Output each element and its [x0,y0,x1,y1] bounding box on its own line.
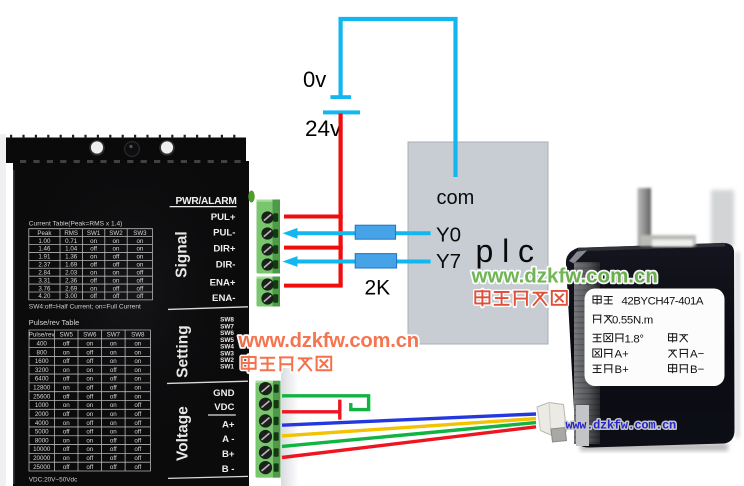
svg-text:off: off [63,411,70,418]
svg-text:on: on [134,393,141,400]
svg-text:off: off [86,385,93,392]
svg-text:2.36: 2.36 [65,277,78,284]
svg-text:on: on [134,385,141,392]
svg-text:SW5: SW5 [59,332,73,339]
svg-text:SW3: SW3 [133,230,147,237]
svg-text:off: off [134,420,141,427]
svg-text:800: 800 [37,349,48,356]
svg-text:0.55N.m: 0.55N.m [612,314,653,326]
svg-text:4000: 4000 [35,420,49,427]
svg-text:on: on [63,367,70,374]
svg-text:A−: A− [690,349,705,361]
svg-text:on: on [63,385,70,392]
svg-text:on: on [134,358,141,365]
svg-text:com: com [437,187,475,209]
svg-text:DIR-: DIR- [216,259,236,270]
svg-text:B+: B+ [222,449,235,460]
svg-text:on: on [86,402,93,409]
svg-text:B−: B− [690,364,705,376]
svg-text:0v: 0v [303,67,326,92]
pulse/rev table [29,330,151,471]
svg-text:on: on [136,246,143,253]
svg-text:3.31: 3.31 [38,277,51,284]
svg-text:1.91: 1.91 [38,254,51,261]
motor bracket highlight [576,405,589,446]
svg-text:on: on [90,269,97,276]
svg-text:off: off [86,393,93,400]
wire 0v to PLC com (cyan) [341,19,456,177]
svg-text:GND: GND [213,388,234,399]
svg-text:1.00: 1.00 [38,238,51,245]
driver heatsink top strip [6,137,246,164]
svg-text:off: off [63,358,70,365]
svg-text:on: on [86,437,93,444]
svg-text:on: on [86,367,93,374]
svg-text:2.69: 2.69 [65,285,78,292]
svg-text:off: off [113,254,120,261]
svg-text:A+: A+ [222,420,235,431]
PLC U1 [408,142,548,344]
svg-text:off: off [63,464,70,471]
svg-text:on: on [110,358,117,365]
svg-text:SW2: SW2 [109,230,123,237]
svg-text:off: off [134,437,141,444]
svg-text:on: on [110,349,117,356]
arrowhead DIR- [283,256,298,267]
svg-text:off: off [90,246,97,253]
svg-text:6400: 6400 [35,376,49,383]
svg-text:off: off [86,464,93,471]
svg-text:off: off [90,262,97,269]
svg-text:ENA+: ENA+ [210,278,236,289]
svg-text:on: on [134,367,141,374]
enable terminal block (ENA) [257,277,281,307]
svg-text:Voltage: Voltage [175,406,192,461]
mounting screw (left) [89,140,105,156]
svg-text:www.dzkfw.com.cn: www.dzkfw.com.cn [238,330,419,352]
battery B1: positive plate [323,110,360,114]
wire to PUL+ [284,215,343,219]
svg-text:off: off [86,358,93,365]
svg-text:off: off [90,293,97,300]
wire B+ (green) [282,423,536,447]
stepper motor M1: shaft post [638,188,652,248]
VDC underline [208,414,236,416]
svg-text:on: on [134,340,141,347]
svg-text:2000: 2000 [35,411,49,418]
svg-text:off: off [86,429,93,436]
svg-text:25000: 25000 [33,464,51,471]
current table [29,229,153,300]
svg-text:Pulse/rev Table: Pulse/rev Table [29,318,79,327]
svg-text:off: off [63,446,70,453]
svg-text:A -: A - [222,434,234,445]
GND wire (green) connector hook [282,396,369,410]
svg-text:2.37: 2.37 [38,262,51,269]
svg-text:Peak: Peak [37,230,52,237]
svg-text:on: on [63,349,70,356]
resistor R2 2K [355,254,396,268]
svg-text:Pulse/rev: Pulse/rev [29,332,56,339]
wire to ENA+ [284,284,343,288]
svg-text:off: off [63,393,70,400]
svg-text:4.20: 4.20 [38,293,51,300]
svg-text:2.03: 2.03 [65,269,78,276]
svg-text:25600: 25600 [33,393,51,400]
svg-text:on: on [63,402,70,409]
arrowhead PUL- [283,228,298,239]
wire DIR- to Y7 (cyan) [295,260,431,264]
svg-text:Setting: Setting [174,325,191,378]
photo background edge shading (left of driver) [0,134,6,486]
svg-text:A+: A+ [615,349,630,361]
svg-text:off: off [110,455,117,462]
svg-text:on: on [136,262,143,269]
watermark orange 电子开发网 [242,356,332,372]
motor top edge highlight [578,243,725,251]
voltage terminal block [256,381,281,478]
svg-text:off: off [63,340,70,347]
svg-text:VDC:20V~50Vdc: VDC:20V~50Vdc [29,477,78,484]
wire PUL- to Y0 (cyan) [295,231,431,235]
label line: 转矩0.55N.m [593,315,613,323]
svg-text:Current Table(Peak=RMS x 1.4): Current Table(Peak=RMS x 1.4) [29,221,123,228]
motor wire connector (white plastic) [537,403,567,437]
svg-text:1.04: 1.04 [65,246,78,253]
svg-text:on: on [136,238,143,245]
svg-text:on: on [110,420,117,427]
photo background edge shading (right of driver bottom) [281,368,299,486]
svg-text:off: off [113,285,120,292]
svg-text:off: off [110,464,117,471]
svg-text:off: off [134,446,141,453]
svg-text:1000: 1000 [35,402,49,409]
svg-text:on: on [90,238,97,245]
svg-text:400: 400 [37,340,48,347]
svg-text:on: on [86,376,93,383]
svg-text:plc: plc [476,233,543,269]
svg-text:PWR/ALARM: PWR/ALARM [175,196,236,207]
svg-text:off: off [86,420,93,427]
section divider 2 [167,381,248,383]
svg-text:on: on [110,429,117,436]
svg-text:on: on [86,340,93,347]
svg-text:PUL-: PUL- [213,227,235,238]
svg-text:on: on [63,455,70,462]
svg-text:on: on [90,285,97,292]
svg-text:off: off [86,455,93,462]
stepper motor M1: body [566,243,735,448]
svg-text:Signal: Signal [174,231,191,278]
svg-text:2.84: 2.84 [38,269,51,276]
svg-text:SW4:off=Half Current; on=Full: SW4:off=Half Current; on=Full Current [29,304,141,311]
svg-text:3.76: 3.76 [38,285,51,292]
signal terminal block (PUL/DIR) [257,200,281,274]
svg-text:off: off [90,277,97,284]
svg-text:RMS: RMS [64,230,78,237]
svg-text:3.00: 3.00 [65,293,78,300]
svg-text:1.8°: 1.8° [625,333,644,345]
svg-text:DIR+: DIR+ [213,244,236,255]
svg-text:3200: 3200 [35,367,49,374]
stepper motor M1: rear post [711,190,734,247]
svg-text:SW8: SW8 [131,332,145,339]
svg-text:Y7: Y7 [436,250,461,273]
svg-text:10000: 10000 [33,446,51,453]
battery B1: negative plate [330,95,351,99]
svg-text:off: off [137,285,144,292]
driver lens/led window [125,142,140,157]
svg-text:off: off [110,385,117,392]
VDC wire (red) connector pin [282,400,340,420]
svg-text:on: on [86,411,93,418]
svg-text:off: off [134,429,141,436]
svg-text:on: on [113,277,120,284]
watermark red 电子开发网 [475,290,567,306]
svg-text:on: on [90,254,97,261]
svg-text:off: off [110,446,117,453]
svg-text:5000: 5000 [35,429,49,436]
svg-text:1.46: 1.46 [38,246,51,253]
svg-text:1.69: 1.69 [65,262,78,269]
svg-text:on: on [136,254,143,261]
svg-text:on: on [113,246,120,253]
svg-text:off: off [113,293,120,300]
label line: 红色B+ 蓝色B- [593,365,613,373]
svg-text:off: off [113,262,120,269]
svg-text:1.36: 1.36 [65,254,78,261]
wire 24v rail (red) [339,114,343,286]
svg-text:off: off [86,349,93,356]
motor spec label [585,289,725,387]
svg-text:on: on [63,437,70,444]
svg-text:off: off [137,293,144,300]
svg-text:www.dzkfw.com.cn: www.dzkfw.com.cn [471,265,658,288]
bottom divider [168,476,248,478]
svg-text:on: on [134,349,141,356]
svg-text:off: off [134,464,141,471]
svg-text:2K: 2K [365,277,391,300]
svg-text:off: off [110,376,117,383]
svg-text:off: off [137,277,144,284]
svg-text:8000: 8000 [35,437,49,444]
wire A- (yellow) [282,419,536,436]
svg-text:on: on [134,376,141,383]
svg-text:12800: 12800 [33,385,51,392]
PWR/ALARM label [170,196,237,207]
wire A+ (blue) [282,414,536,425]
mounting screw (right) [159,140,175,156]
svg-text:B -: B - [222,464,235,475]
driver left edge highlight [13,170,15,484]
svg-text:on: on [110,340,117,347]
svg-text:42BYCH47-401A: 42BYCH47-401A [622,296,704,308]
svg-text:Y0: Y0 [436,224,461,247]
svg-text:off: off [63,429,70,436]
motor soft shadow [580,443,728,451]
wire B- (red) [282,427,536,458]
svg-text:off: off [134,402,141,409]
svg-text:off: off [134,411,141,418]
svg-text:on: on [113,238,120,245]
svg-text:on: on [110,402,117,409]
wire to DIR+ [284,246,343,250]
label line: 型号 42BYCH47-401A [593,295,613,305]
svg-text:on: on [86,446,93,453]
stepper driver module (black housing) [13,161,249,486]
svg-text:0.71: 0.71 [65,238,78,245]
section divider [168,307,248,310]
svg-text:www.dzkfw.com.cn: www.dzkfw.com.cn [566,419,677,433]
label line: 黑色A+ 绿色A- [593,349,613,358]
svg-text:off: off [110,393,117,400]
svg-text:off: off [137,269,144,276]
svg-text:SW6: SW6 [83,332,97,339]
svg-text:on: on [113,269,120,276]
motor lamination stack (left) [574,262,600,444]
resistor R1 2K [355,225,395,239]
svg-text:on: on [110,411,117,418]
svg-text:SW1: SW1 [87,230,101,237]
svg-text:ENA-: ENA- [212,293,235,304]
svg-text:off: off [134,455,141,462]
svg-text:20000: 20000 [33,455,51,462]
svg-text:B+: B+ [615,364,630,376]
svg-text:1600: 1600 [35,358,49,365]
motor top-left bevel highlight [569,251,587,264]
svg-text:SW7: SW7 [107,332,121,339]
svg-text:off: off [63,376,70,383]
svg-text:VDC: VDC [214,402,234,413]
svg-text:on: on [63,420,70,427]
svg-text:SW1: SW1 [220,364,234,371]
power LED [248,191,254,203]
svg-text:PUL+: PUL+ [211,212,236,223]
label line: 步距角1.8 电流 [593,334,624,343]
svg-text:24v: 24v [305,116,342,141]
connector nut [551,428,567,443]
svg-text:off: off [110,367,117,374]
svg-text:off: off [110,437,117,444]
